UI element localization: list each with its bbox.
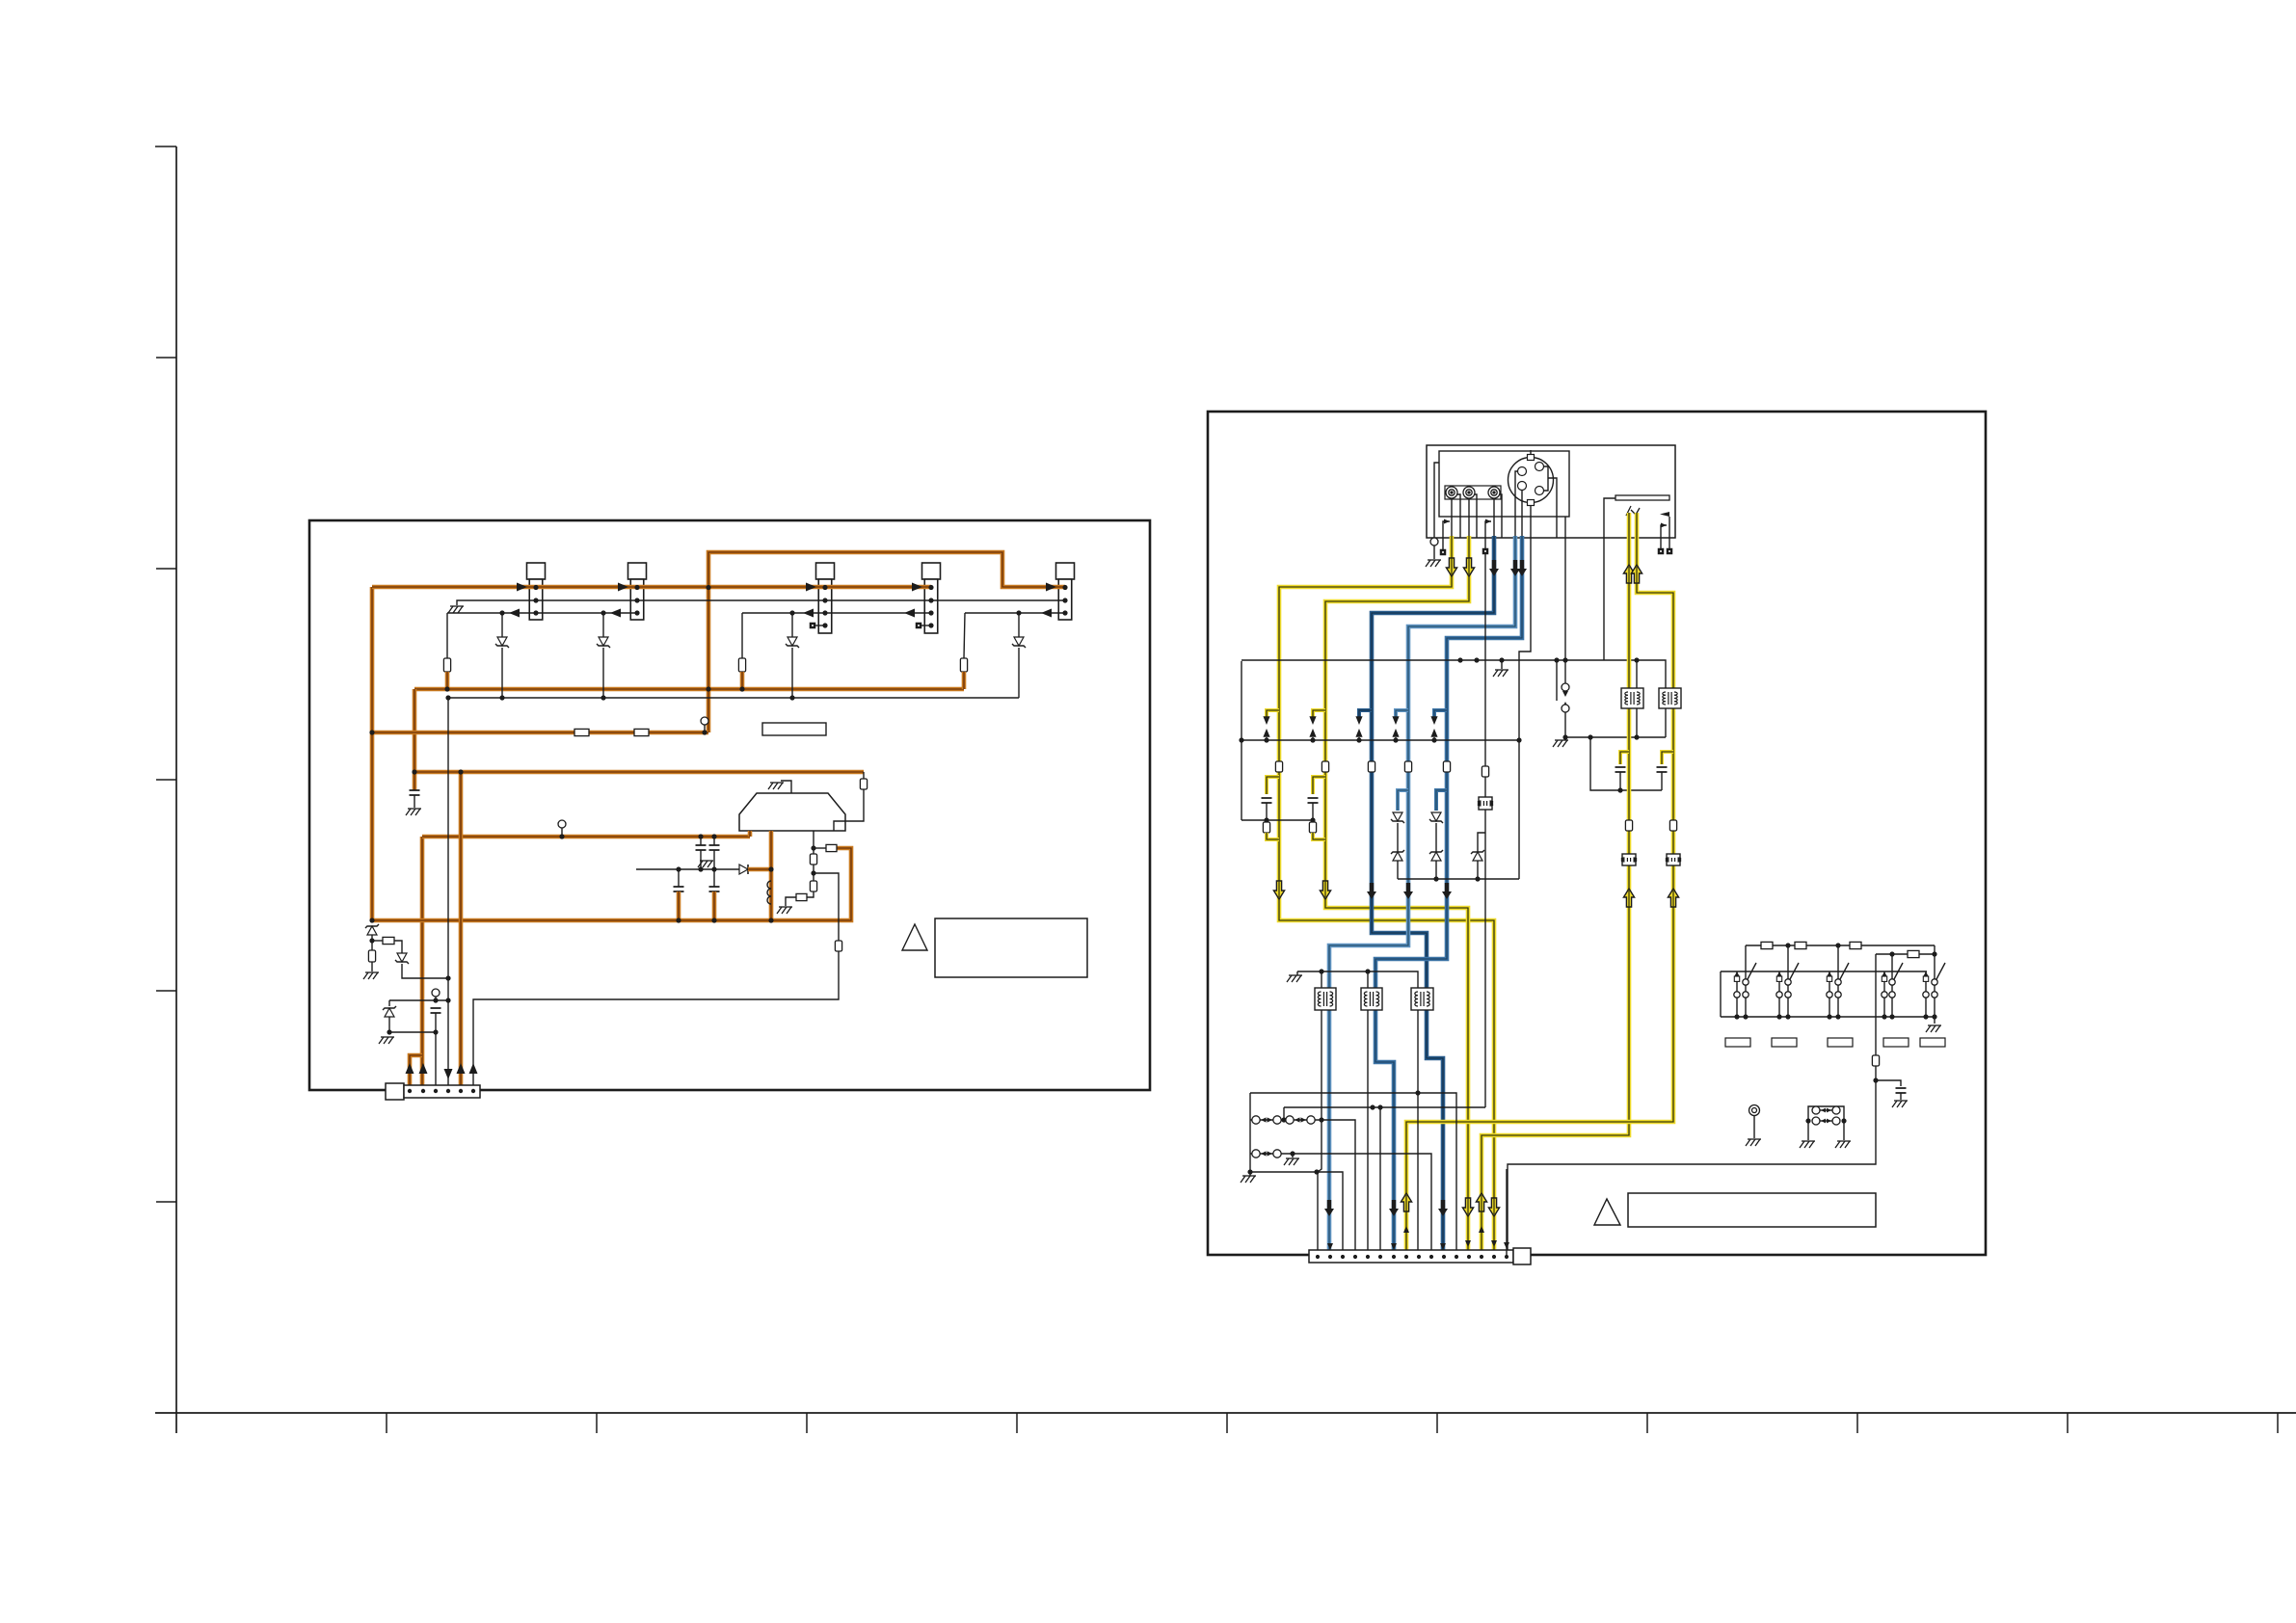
junction y1216 x1366 [1314,1169,1319,1174]
ferrite bead degauss right [1666,854,1680,865]
wire flag companion [1661,525,1667,548]
ground module left [1426,560,1441,567]
wire yellow degauss right bottom [1671,831,1676,854]
jumper circle chain1 x1325 [1273,1116,1281,1124]
CRT socket body [739,793,845,831]
wire interconnect hook x1501 [1434,710,1447,717]
wire cap degauss left stem [1619,772,1621,790]
wire switch bus lower [1721,1016,1935,1018]
arrow yellow Y2 bottom [1462,1198,1473,1216]
arrowhead chain1 b [1268,1117,1273,1122]
switch lower contact B group5 [1932,992,1937,998]
capacitor degauss left [1615,767,1626,772]
switch lower contact B group4 [1889,992,1895,998]
sheet frame bottom tick 6 [1436,1413,1438,1433]
arrowhead chain2 a [1261,1151,1267,1156]
arrow blue B3 top [1517,560,1527,576]
wire orange net E horizontal [422,835,750,839]
wire chain2 line [1250,1154,1431,1257]
wire socket bottom key out [1530,506,1532,539]
tube pin1 dot x556 [533,585,538,590]
wire grid branch right [814,873,839,941]
arrowhead pin1459 up [1403,1226,1409,1233]
arrow interconnect up x1461 [1392,729,1399,737]
junction grid x844 y880 [811,845,815,850]
arrow yellow Y1 bottom [1488,1198,1499,1216]
sheet frame bottom tick 10 [2277,1413,2279,1433]
protection diode D3 [786,637,799,648]
wire orange bus A horizontal [372,585,931,590]
resistor riser T5 [960,658,967,672]
junction bus lower A group1 [1734,1014,1739,1019]
wire riser T34 lower orange [740,672,745,691]
wire switch resistor row2 [1876,953,1935,955]
test point net C [701,717,708,725]
capacitor loop x1327 [1262,798,1272,803]
wire switch colB group4 [1891,985,1893,992]
junction x1288 y768 [1239,737,1243,742]
wire orange connector link [410,1055,422,1091]
square terminal flag companion [1658,548,1665,555]
junction zener bus 521 [499,695,504,700]
tube pin3 dot x1105 [1062,610,1067,615]
connector right pin x1563 [1505,1255,1508,1259]
tube pin3 dot x856 [822,610,827,615]
wire node branch right [372,940,383,942]
wire pin x1563 drop [1506,1169,1508,1257]
wire grid bottom to ground [786,897,796,906]
wire switch colB lower group2 [1787,998,1789,1017]
terminal jumper top x1624 [1562,683,1569,691]
protection diode D4 [1012,637,1026,648]
wire node branch to zener2 [394,941,402,953]
switch fixed contact group5 [1923,976,1928,981]
warning triangle right block [1594,1199,1620,1225]
zener loop x1501 [1429,812,1443,823]
wire T3 pin4 [815,625,825,626]
capacitor bus B left [410,790,420,795]
resistor cathode feedback [826,844,837,851]
wire orange bus A vertical [370,587,375,920]
junction matrix row x1855 [1785,943,1790,947]
resistor matrix 1 [1761,942,1773,948]
wire video x1541 upper [1484,554,1486,766]
arrowhead jumper TL [1821,1108,1826,1113]
switch moving contact group2 [1785,979,1791,985]
wire CRT cathode drop [769,831,774,920]
jack plate [1445,486,1501,499]
label box switch group2 [1772,1038,1797,1047]
wire lever drop group1 [1745,945,1747,979]
ground jumper right [1835,1141,1851,1148]
arrow pin3 T2 [610,609,621,618]
capacitor loop x1375 [1308,798,1319,803]
wire switch rail left [1720,971,1722,1017]
wire switch colB lower group3 [1837,998,1839,1017]
connector left pin x425 [408,1089,412,1093]
junction bus A x735 [706,585,710,590]
junction trio feed T2 [1365,969,1370,973]
wire ring terminal stem [1753,1115,1755,1138]
wire switch colB group1 [1745,985,1747,992]
tube pin2 dot x661 [634,598,639,602]
switch lower contact A group3 [1827,992,1832,998]
arrow blue B2 mid [1403,883,1413,899]
ground trio feed [1287,975,1302,982]
connector right pin x1446 [1392,1255,1396,1259]
wire diode loop mid x1461 [1397,823,1399,852]
zener bus F [365,924,379,935]
wire interconnect hook x1461 [1396,710,1408,717]
diode video line [739,865,748,874]
wire video diode hook [1478,833,1485,852]
tube pin3 dot x556 [533,610,538,615]
junction riser T12 on bus B [444,686,449,691]
arrowhead jumper x1624 up [1562,702,1568,707]
junction zener 4 top [1016,610,1021,615]
sheet frame bottom tick 2 [596,1413,598,1433]
wire contact stub group2 [1778,971,1780,976]
switch lever group4 [1894,963,1903,979]
junction bus F cap2 [711,918,716,922]
wire zener drop 3 upper [791,613,793,637]
terminal jumper bottom x1624 [1562,705,1569,712]
arrow interconnect down x1327 [1263,716,1269,725]
label box switch group5 [1920,1038,1945,1047]
arrow interconnect down x1375 [1309,716,1316,725]
switch lower contact B group2 [1785,992,1791,998]
sheet frame left tick 2 [156,357,176,359]
wire switch bus upper [1721,971,1927,972]
wire module left gnd stem [1433,545,1435,559]
wire chain1 line [1250,1120,1355,1257]
label box left block [762,723,826,735]
tube pin2 dot x856 [822,598,827,602]
CRT socket pin SW [1518,482,1527,491]
note box right block [1628,1193,1876,1227]
junction chain2 gnd [1290,1151,1295,1156]
wire T3 black lower [1417,1010,1419,1257]
wire switch colA group1 [1736,981,1738,992]
arrowhead jumper TR [1827,1108,1831,1113]
jumper circle chain1 x1338 [1286,1116,1294,1124]
sheet frame bottom border [155,1412,2296,1414]
wire jack1 tp hook [1443,521,1450,549]
label box switch group1 [1725,1038,1750,1047]
wire T-A secondary top pin [1636,660,1638,688]
wire socket line x1615 lower [1556,660,1558,701]
wire yellow degauss left lower [1627,708,1632,820]
wire bus y685 right [1604,660,1666,688]
wire interconnect tail x1501 [1433,737,1435,740]
resistor grid upper [810,854,816,865]
junction node x386 y976 [369,938,374,943]
jumper block circle TR [1832,1106,1840,1114]
connector right pin x1393 [1341,1255,1345,1259]
wire yellow degauss left [1627,513,1632,688]
junction bus lower A group3 [1827,1014,1831,1019]
arrow conn pin 465 [444,1069,453,1079]
wire zener drop 3 lower [791,648,793,698]
arrow blue B1 bottom [1438,1200,1448,1216]
arrowhead flag companion [1661,523,1667,528]
junction y685 x1558 [1499,657,1504,662]
junction zener bus 626 [601,695,605,700]
arrow blue B1 mid [1367,883,1376,899]
wire lower cap2 to bus F [712,891,717,921]
arrowhead jumper BR [1827,1119,1831,1124]
junction interconnect x1461 [1393,737,1398,742]
wire zener drop 4 upper [1018,613,1020,637]
wire bus y685 [1241,659,1604,661]
resistor net C 1 [574,729,589,735]
wire riser T5 lower orange [962,672,967,689]
junction cap loop x1375 [1310,817,1315,822]
wire degauss left lead [1604,498,1615,660]
connector right pin x1459 [1404,1255,1408,1259]
arrowhead pin1537 up [1479,1226,1484,1233]
junction y1149 x1432 [1377,1104,1382,1109]
resistor video line [1482,766,1488,777]
connector right block body [1309,1248,1531,1264]
wire orange net C [372,731,708,735]
junction y685 x1624 [1562,657,1567,662]
resistor series Y2 [1322,761,1328,772]
open circle terminal module left [1430,538,1438,545]
stem ground x1558 [1501,660,1503,669]
jumper circle chain2 x1325 [1273,1150,1281,1157]
wire CRT heater pin left [748,831,753,837]
wire cap1 upper stem [700,837,702,845]
wire switch colA group3 [1829,981,1830,992]
diode video line [1471,850,1484,861]
connector left pin x491 [471,1089,475,1093]
tube pin1 dot x856 [822,585,827,590]
wire line y1071 [387,1031,437,1033]
wire cap loop lower x1375 [1313,833,1325,839]
switch fixed contact group2 [1776,976,1781,981]
connector right pin x1419 [1366,1255,1370,1259]
ring terminal [1749,1105,1760,1116]
arrowhead tp hook1 [1444,519,1450,524]
connector right pin x1380 [1328,1255,1332,1259]
wire switch colA lower group4 [1883,998,1885,1017]
arrowhead jumper BL [1821,1119,1826,1124]
wire socket top key [1530,450,1532,454]
wire contact stub group4 [1883,971,1885,976]
jumper block circle BL [1812,1117,1820,1125]
wire T-B secondary bottom pin [1665,708,1667,737]
junction line y1071 left [387,1029,391,1034]
junction bus lower B group2 [1785,1014,1790,1019]
wire yellow Y1 from jack1 [1279,536,1494,1257]
arrow yellow degauss right bottom [1401,1193,1411,1211]
wire switch colB group2 [1787,985,1789,992]
connector left pin x452 [434,1089,438,1093]
arrowhead stub group1 [1734,971,1739,976]
line filter transformer T-B [1659,688,1681,708]
wire jumper block outline [1808,1106,1844,1128]
junction cap loop x1327 [1264,817,1268,822]
junction matrix row x1907 [1835,943,1840,947]
junction bus lower B group1 [1743,1014,1748,1019]
switch lower contact A group4 [1882,992,1887,998]
arrow pin3 T4 [904,609,915,618]
wire yellow degauss left exit [1482,865,1629,1257]
arrow on orange bus A at x1096 [1046,583,1056,592]
connector right pin x1406 [1353,1255,1357,1259]
switch lever group1 [1748,963,1756,979]
wire y1149 drop [1283,1107,1285,1120]
jumper circle chain2 x1303 [1252,1150,1260,1157]
wire T4 pin4 [921,625,931,626]
junction y1149 x1424 [1370,1104,1375,1109]
stem ground switch bus [1934,1017,1936,1024]
junction bus lower B group3 [1835,1014,1840,1019]
wire cap B to ground [414,795,415,808]
sheet frame left tick 5 [156,990,176,992]
wire diode conn upper [388,1000,390,1006]
connector right pin x1511 [1455,1255,1458,1259]
wire lower cap1 stem [678,869,680,887]
tube pin4 dot T3 [822,623,827,627]
sheet frame bottom tick 5 [1226,1413,1228,1433]
degauss coil bar [1615,495,1669,500]
connector right pin x1524 [1467,1255,1471,1259]
arrow yellow Y1 top [1446,558,1456,576]
protection diode D1 [495,637,509,648]
ground chain2 [1284,1158,1299,1165]
junction T1 black chain [1319,1117,1323,1122]
RCA jack J3 [1488,487,1500,498]
junction x465 y724 [445,695,450,700]
resistor node branch [383,937,394,944]
driver transformer T1 [1315,988,1336,1010]
wire T1 black lower [1318,1010,1322,1257]
spark-gap tube V1 [527,563,546,620]
switch fixed contact group1 [1734,976,1739,981]
tube pin1 dot x966 [928,585,933,590]
tube pin2 dot x966 [928,598,933,602]
wire orange bus A step-over [708,552,1065,587]
junction matrix row2 x2007 [1932,951,1936,956]
wire line y1216 [1250,1172,1343,1257]
resistor node down [368,950,375,962]
arrow interconnect up x1423 [1355,729,1362,737]
wire orange bus B left drop [413,689,417,790]
ground jumper left [1800,1141,1815,1148]
wire cap conn lower [435,1013,437,1091]
arrowhead pin1380 tip [1327,1243,1333,1250]
tube pin3 dot x661 [634,610,639,615]
junction T3 black y1134 [1415,1090,1420,1095]
wire diode loop mid x1501 [1435,823,1437,852]
arrow blue B1 top [1489,560,1499,576]
junction matrix row2 x1963 [1889,951,1894,956]
resistor riser T12 [443,658,450,672]
connector right pin x1367 [1316,1255,1320,1259]
connector right pin x1432 [1378,1255,1382,1259]
square terminal T3 pin4 [810,623,816,629]
arrow pin3 T1 [509,609,520,618]
wire cap loop upper x1375 [1313,777,1325,794]
switch moving contact group5 [1932,979,1937,985]
ferrite bead degauss left [1621,854,1636,865]
arrow on orange bus A at x652 [618,583,628,592]
switch lower contact A group2 [1776,992,1782,998]
connector right pin x1485 [1429,1255,1433,1259]
wire interconnect tail x1423 [1358,737,1360,740]
wire jack2 side stem [1475,494,1477,538]
resistor series Y1 [1275,761,1282,772]
warning triangle left block [902,924,927,950]
junction bus F cap1 [676,918,681,922]
wire socket bracket out [1548,478,1557,538]
resistor riser T34 [738,658,745,672]
wire socket return [1519,538,1531,879]
wire zener drop 2 lower [602,648,604,698]
wire feedback link [814,847,826,849]
junction bus lower A group2 [1776,1014,1781,1019]
wire yellow degauss right lower [1671,708,1676,820]
wire interconnect hook x1423 [1359,710,1372,717]
junction test point net E [559,834,564,838]
wire interconnect hook x1375 [1313,710,1325,717]
ground grid network [777,907,792,914]
wire bus y851 [1241,819,1313,821]
wire line y1149 [1284,1106,1485,1108]
capacitor video-1 [674,887,684,891]
wire jack1 side stem [1457,494,1460,538]
junction y912 x1533 [1475,876,1480,881]
arrowhead pin1550 tip [1491,1240,1497,1247]
jumper block circle BR [1832,1117,1840,1125]
wire switch colB lower group4 [1891,998,1893,1017]
wire interconnect tail x1461 [1395,737,1397,740]
tube pin3 dot x966 [928,610,933,615]
junction jumper BR rail [1841,1118,1846,1123]
line filter transformer T-A [1621,688,1643,708]
resistor grid bottom [796,893,807,900]
wire lower cap1 to bus F [677,891,681,921]
wire cap degauss right stem [1661,772,1663,790]
junction chain1 x1332 [1281,1117,1286,1122]
junction lower cap1 line [676,866,681,871]
wire switch colA lower group1 [1736,998,1738,1017]
arrow conn pin 478 [457,1063,466,1074]
arrowhead stub group5 [1923,971,1928,976]
connector right pin x1550 [1492,1255,1496,1259]
switch lower contact A group5 [1923,992,1929,998]
wire orange net E lower [420,837,425,1091]
wire flag pole [1669,517,1670,548]
ferrite bead video [1478,797,1492,810]
square terminal flag [1667,548,1673,555]
junction interconnect x1423 [1356,737,1361,742]
resistor series B1 [1368,761,1375,772]
arrowhead stub group2 [1776,971,1781,976]
sheet frame bottom tick 3 [806,1413,808,1433]
wire switch colB lower group5 [1934,998,1936,1017]
junction grid x844 y906 [811,870,815,875]
ground service branch [1892,1101,1908,1107]
junction bus lower B group4 [1889,1014,1894,1019]
wire video diode tail [1477,861,1479,879]
wire jack3 tp hook [1485,521,1491,548]
sheet frame bottom tick 4 [1016,1413,1018,1433]
wire diode loop lower x1501 [1435,861,1437,879]
resistor net C 2 [634,729,649,735]
